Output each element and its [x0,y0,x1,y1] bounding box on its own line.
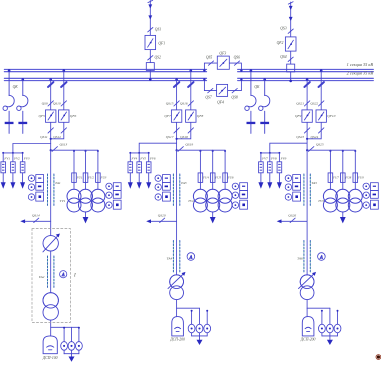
svg-text:1 секция 35 кВ: 1 секция 35 кВ [347,62,374,67]
svg-text:QS4: QS4 [280,55,287,59]
meter set 2 b [196,324,203,333]
wire main feeder 1 [50,150,52,336]
bus section 1 right [238,69,374,71]
svg-text:QF6: QF6 [70,114,77,118]
fuse FU8 and transformer TV3 winding b [336,150,350,212]
svg-text:FU6: FU6 [227,175,234,179]
svg-text:QS14: QS14 [32,214,40,218]
incomer 2 line [285,2,296,83]
wire main feeder 2 [176,150,178,316]
svg-text:QF5: QF5 [38,114,45,118]
svg-text:QS7: QS7 [205,96,212,100]
arrester FV3 [20,152,25,189]
disconnector QS26 with outgoing arrow [277,218,307,223]
instrument set of TA1 [28,175,43,202]
svg-text:QK: QK [13,85,19,89]
svg-text:QF3: QF3 [219,52,226,56]
wire main feeder 3 [306,150,308,316]
fuse FU6 and transformer TV2 winding c [218,150,232,212]
svg-text:FU2: FU2 [87,175,94,179]
reactor L1 variable [43,234,60,252]
wire to arrester group 2 [130,143,176,153]
svg-text:ТА6: ТА6 [297,257,303,261]
arrester FV1 [1,152,6,189]
svg-text:QS20: QS20 [158,214,166,218]
svg-text:FV1: FV1 [3,157,10,161]
fuse FU2 and transformer TV1 winding b [79,150,93,212]
disconnector QS19 and TV branch wire [176,147,226,152]
svg-text:ДСП-200: ДСП-200 [169,337,185,341]
wire bay QF8 from bus1 [176,69,193,140]
bay QF8 switches and breaker [186,82,196,133]
svg-text:FV2: FV2 [13,157,20,161]
ammeter PA3 [318,253,326,261]
current transformer TA5 [304,174,310,206]
svg-text:QS25: QS25 [316,143,324,147]
breaker QF4 [217,84,228,96]
bus sectionalizer bridge upper (QS5 QF3 QS6) [203,63,242,72]
svg-text:QS24: QS24 [311,135,319,139]
bay QF9 switches and breaker [302,82,312,133]
svg-text:FV3: FV3 [23,157,30,161]
ammeter PA2 [187,253,195,261]
instrument set of TA5 [285,175,300,202]
svg-text:QS22: QS22 [310,101,318,105]
instrument set of TV2 [232,183,247,210]
ground of meter set 2 [197,340,203,345]
svg-text:QS12: QS12 [53,135,61,139]
wire branch to meters 1 [51,327,80,342]
arrester FV5 [137,152,142,189]
svg-text:QS23: QS23 [296,135,304,139]
ground of TV3 [340,212,346,224]
bus section 1 left (35 kV line 1) [4,69,206,71]
wire to arrester group 3 [261,143,307,153]
svg-text:QS2: QS2 [155,56,162,60]
svg-text:TV3: TV3 [318,199,324,203]
meter set 2 c [204,324,211,333]
meter set 3 a [319,324,326,333]
current transformer TA2 [48,256,54,288]
instrument set of TV1 [106,183,121,210]
meter set 3 c [334,324,341,333]
cable termination group left: feeder from bus1 [3,69,14,133]
svg-text:QF8: QF8 [197,114,204,118]
svg-text:TV1: TV1 [60,199,66,203]
disconnector QS20 with outgoing arrow [146,218,176,223]
svg-text:QF10: QF10 [327,114,335,118]
incomer 1 line [145,0,156,81]
arc furnace DSP-200 right [302,317,314,336]
ground of meter set 1 [69,357,75,362]
current transformer TA4 [173,241,179,273]
svg-text:FU5: FU5 [214,175,221,179]
disconnector QS6 [234,61,239,65]
wire bay QF10 from bus1 [306,69,323,140]
disconnector QS7 [208,88,213,92]
wire to arrester group 1 [3,144,51,153]
svg-text:FV5: FV5 [139,157,146,161]
svg-text:ДСП-200: ДСП-200 [300,337,316,341]
svg-text:QF7: QF7 [164,114,171,118]
svg-text:QS15: QS15 [166,101,174,105]
svg-text:QS9: QS9 [42,101,48,105]
ground of TV2 [210,212,216,224]
svg-text:QS5: QS5 [206,55,213,59]
meter set 1 a [61,342,68,351]
svg-text:FV6: FV6 [149,157,156,161]
fuse FU3 and transformer TV1 winding c [91,150,105,212]
svg-text:FU7: FU7 [332,175,339,179]
arrester FV4 [128,152,133,189]
svg-text:QS8: QS8 [231,96,238,100]
disconnector QS5 [208,61,213,65]
arrester FV6 [146,152,151,189]
svg-text:FU4: FU4 [202,175,209,179]
svg-text:ТА4: ТА4 [167,257,173,261]
cable termination group middle: feeder from bus2 [259,78,270,133]
arc furnace DSP-100 [43,336,57,354]
wire branch to meters 2 [177,308,209,324]
fuse FU7 and transformer TV3 winding a [323,150,337,212]
svg-text:QF1: QF1 [158,42,165,46]
meter set 2 a [188,324,195,333]
meter set 1 b [68,342,75,351]
bay QF6 switches and breaker [59,82,69,133]
bay QF7 switches and breaker [171,82,181,133]
cable termination group left: feeder from bus2 [17,78,28,133]
current transformer TA1 [48,174,54,206]
bus sectionalizer bridge lower (QS7 QF4 QS8) [203,78,242,90]
wire bay QF6 from bus1 [50,69,65,140]
disconnector QS13 and TV branch wire [50,147,98,152]
wire bay QF9 from bus2 [306,78,309,150]
instrument set of TV3 [363,183,378,210]
bus section 2 right [238,78,374,80]
svg-text:FU3: FU3 [100,175,107,179]
cable termination group middle: feeder from bus1 [245,69,256,133]
svg-text:QF4: QF4 [217,101,224,105]
wire meter collector 2 [192,333,208,340]
svg-text:FU8: FU8 [344,175,351,179]
svg-text:FU9: FU9 [357,175,364,179]
fuse FU4 and transformer TV2 winding a [193,150,207,212]
arrester FV2 [10,152,15,189]
svg-text:ДСП-100: ДСП-100 [42,356,58,360]
svg-text:2 секция 35 кВ: 2 секция 35 кВ [347,71,374,76]
transformer T1 [43,293,58,320]
bay QF10 switches and breaker [316,82,326,133]
svg-text:FU1: FU1 [76,175,83,179]
bay QF5 switches and breaker [46,82,56,133]
svg-text:TV2: TV2 [188,199,194,203]
wire bay QF5 from bus2 [49,78,52,150]
svg-text:FV7: FV7 [261,157,268,161]
fuse FU5 and transformer TV2 winding b [206,150,220,212]
svg-text:ТА3: ТА3 [181,181,187,185]
svg-text:QS26: QS26 [288,214,296,218]
svg-text:QF9: QF9 [295,114,302,118]
svg-text:QS1: QS1 [155,28,162,32]
wire bay QF7 from bus2 [175,78,178,150]
svg-text:FV4: FV4 [131,157,138,161]
transformer T3 with regulator [299,272,317,300]
arc furnace DSP-200 left [172,317,184,336]
svg-text:QS3: QS3 [280,27,287,31]
instrument set of TA3 [155,175,170,202]
disconnector QS14 with outgoing arrow [20,218,50,223]
svg-text:A: A [319,254,323,259]
svg-text:ТА2: ТА2 [39,275,45,279]
meter set 1 c [76,342,83,351]
svg-text:FV8: FV8 [270,157,277,161]
svg-text:QS17: QS17 [166,135,174,139]
svg-text:I: I [73,273,76,278]
wire meter collector 3 [322,333,338,340]
svg-text:QS21: QS21 [296,101,304,105]
current transformer TA3 [173,174,179,206]
scan speck bottom right [377,355,380,358]
arrester FV9 [277,152,282,189]
svg-text:A: A [61,272,65,277]
transformer T2 with regulator [168,272,186,300]
svg-text:ТА5: ТА5 [311,181,317,185]
svg-text:QS13: QS13 [60,143,68,147]
disconnector QS8 [232,88,237,92]
svg-text:QS10: QS10 [53,101,61,105]
svg-text:FV9: FV9 [280,157,287,161]
arrester FV8 [267,152,272,189]
current transformer TA6 [304,241,310,273]
svg-text:QK: QK [254,85,260,89]
svg-text:QS16: QS16 [180,101,188,105]
bus section 2 left (35 kV line 2) [4,78,206,80]
breaker QF3 [217,56,229,69]
ground of meter set 3 [327,340,333,345]
svg-text:A: A [189,254,193,259]
fuse FU9 and transformer TV3 winding c [348,150,362,212]
svg-text:QS6: QS6 [234,55,241,59]
svg-text:ТА1: ТА1 [55,181,61,185]
wire meter collector 1 [64,350,79,356]
ground of TV1 [83,212,89,224]
fuse FU1 and transformer TV1 winding a [67,150,81,212]
svg-text:QS19: QS19 [185,143,193,147]
svg-text:QF2: QF2 [277,41,284,45]
wire branch to meters 3 [307,308,338,324]
svg-text:QS18: QS18 [180,135,188,139]
meter set 3 b [327,324,334,333]
disconnector QS25 and TV branch wire [306,147,355,152]
dashed cell enclosure I [32,229,70,323]
ammeter PA1 [60,271,67,278]
svg-text:QS11: QS11 [40,135,48,139]
arrester FV7 [258,152,263,189]
